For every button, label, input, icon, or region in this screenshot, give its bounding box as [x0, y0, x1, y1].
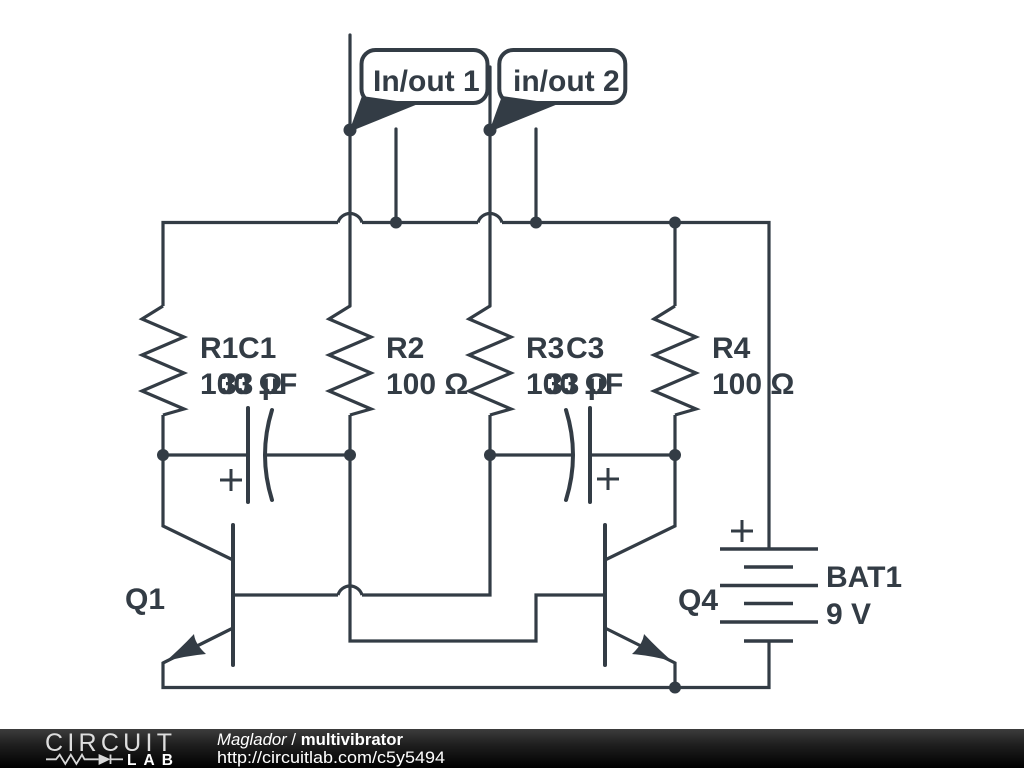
svg-text:R2: R2 — [386, 332, 424, 365]
footer title Maglador / multivibrator — [217, 731, 404, 749]
svg-text:C1: C1 — [238, 332, 276, 365]
svg-text:33 µF: 33 µF — [546, 368, 623, 401]
svg-text:C3: C3 — [566, 332, 604, 365]
wire Q4 base to node at x=350 — [350, 455, 605, 641]
resistor R4 — [654, 306, 696, 415]
wire C1 left lead — [163, 453, 248, 456]
capacitor C1 (polarized) — [220, 408, 272, 502]
footer url — [217, 748, 445, 767]
junction dot Q4 emitter / bottom rail — [669, 682, 681, 694]
junction dot R4/C3/Q4-collector — [669, 449, 681, 461]
transistor Q4 emitter arrow — [632, 634, 673, 662]
resistor R3 — [469, 306, 511, 415]
wire top rail segment middle — [362, 221, 478, 224]
transistor Q1 (NPN, mirrored) — [163, 455, 233, 665]
callout box in/out 2 — [489, 50, 625, 132]
svg-text:R4: R4 — [712, 332, 751, 365]
svg-text:Maglador / multivibrator: Maglador / multivibrator — [217, 731, 404, 749]
resistor R1 — [142, 306, 184, 415]
svg-text:33 µF: 33 µF — [220, 368, 297, 401]
wire C3 left lead — [490, 453, 573, 456]
svg-text:9 V: 9 V — [826, 598, 871, 631]
node In/out 1 junction dot — [344, 124, 357, 137]
svg-text:LAB: LAB — [127, 752, 173, 768]
transistor Q4 (NPN) — [605, 455, 675, 687]
wire R4 bottom lead — [673, 415, 676, 455]
transistor Q1 emitter arrow — [166, 634, 207, 662]
svg-text:Q4: Q4 — [678, 584, 718, 617]
svg-text:Q1: Q1 — [125, 583, 165, 616]
CircuitLab logo resistor-diode icon — [46, 755, 123, 765]
svg-text:http://circuitlab.com/c5y5494: http://circuitlab.com/c5y5494 — [217, 748, 445, 767]
CircuitLab logo text CIRCUIT — [45, 729, 172, 757]
junction dot stub/rail x=396 — [390, 217, 402, 229]
wire stub from rail up (x=536) — [534, 129, 537, 222]
wire stub from rail up (x=396) — [394, 129, 397, 222]
wire hop over in/out2 wire on top rail — [478, 213, 502, 222]
svg-text:R3: R3 — [526, 332, 564, 365]
wire R1 bottom lead — [161, 415, 164, 455]
svg-text:in/out 2: in/out 2 — [513, 65, 620, 98]
node in/out 2 junction dot — [484, 124, 497, 137]
wire R2 bottom lead — [348, 415, 351, 455]
wire in/out 1 vertical (x=350, from top to R2) — [348, 35, 351, 306]
wire R3 bottom lead — [488, 415, 491, 455]
svg-text:In/out 1: In/out 1 — [373, 65, 480, 98]
wire C3 right lead — [590, 453, 675, 456]
junction dot R1/C1/Q1-collector — [157, 449, 169, 461]
wire Q1 emitter / bottom rail / battery negative lead — [163, 628, 769, 688]
wire top rail left + R1 top lead — [163, 223, 338, 307]
svg-text:BAT1: BAT1 — [826, 561, 902, 594]
wire Q1 base segment — [233, 455, 490, 595]
CircuitLab logo text LAB — [127, 752, 173, 768]
junction dot stub/rail x=536 — [530, 217, 542, 229]
svg-text:R1: R1 — [200, 332, 238, 365]
svg-text:100 Ω: 100 Ω — [386, 368, 468, 401]
wire in/out 2 vertical (x=490, from between callouts to R3) — [488, 67, 491, 306]
resistor R2 — [329, 306, 371, 415]
wire R4 top lead — [673, 222, 676, 306]
junction dot R3/C3/Q1-base — [484, 449, 496, 461]
capacitor C3 (polarized, mirrored) — [566, 408, 619, 502]
battery BAT1 plates — [720, 549, 818, 641]
wire top rail right + battery positive lead — [502, 223, 769, 550]
wire hop over in/out1 wire on Q1 base wire — [338, 586, 362, 595]
battery plus sign — [731, 520, 753, 542]
wire hop over in/out1 wire on top rail — [338, 214, 362, 223]
callout box In/out 1 — [349, 50, 488, 132]
junction dot R2/C1/Q4-base — [344, 449, 356, 461]
wire C1 right lead — [266, 453, 350, 456]
svg-text:100 Ω: 100 Ω — [712, 368, 794, 401]
junction dot R4 top — [669, 217, 681, 229]
